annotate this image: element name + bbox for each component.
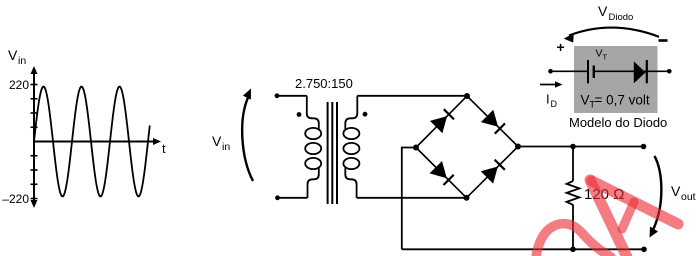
x-axis — [34, 138, 161, 145]
VDiodo curved arrow — [564, 28, 659, 43]
svg-text:V: V — [598, 3, 608, 19]
wire secondary top to bridge top node — [357, 95, 467, 97]
primary terminal bottom — [275, 195, 280, 200]
svg-text:220: 220 — [9, 78, 29, 92]
VT value label — [581, 93, 650, 110]
svg-text:V: V — [671, 183, 681, 199]
svg-text:+: + — [557, 39, 565, 55]
sine wave Vin — [34, 87, 150, 197]
VDiodo label — [598, 3, 633, 23]
ID label — [546, 92, 558, 110]
svg-text:out: out — [681, 191, 696, 203]
bridge edges — [416, 96, 518, 198]
wire secondary bottom to bridge bottom node — [357, 197, 467, 199]
Vin axis label (graph) — [8, 47, 26, 67]
diode D5 (model) — [634, 60, 647, 83]
model terminal right — [667, 69, 672, 74]
secondary phase dot — [363, 112, 368, 117]
svg-text:in: in — [18, 55, 26, 67]
Vout label — [671, 183, 696, 203]
diode D2 (top to right) — [481, 110, 505, 134]
svg-text:= 0,7 volt: = 0,7 volt — [595, 93, 650, 108]
svg-text:V: V — [212, 133, 222, 149]
wire primary bottom — [278, 197, 308, 199]
Vout curved arrow — [650, 156, 662, 238]
node Vout plus terminal — [641, 144, 647, 150]
node left junction — [413, 145, 419, 151]
bottom rail wire — [402, 248, 644, 250]
transformer core — [328, 102, 337, 204]
primary phase dot — [297, 112, 302, 117]
node top junction — [464, 93, 470, 99]
svg-text:T: T — [603, 53, 608, 62]
diode D4 (bottom to right) — [481, 160, 505, 184]
svg-text:2.750:150: 2.750:150 — [295, 76, 353, 91]
ID current arrow — [540, 81, 563, 88]
diode D3 (left to bottom) — [430, 161, 454, 185]
diode model gray box — [574, 46, 658, 113]
svg-text:D: D — [551, 99, 558, 109]
battery VT — [588, 60, 594, 83]
y-axis — [31, 66, 38, 208]
svg-text:V: V — [596, 48, 603, 60]
wire right node to Vout plus — [518, 146, 644, 148]
svg-text:V: V — [8, 47, 18, 63]
watermark — [536, 180, 678, 256]
diode D1 (left to top) — [430, 109, 454, 133]
primary winding L1 — [305, 96, 321, 198]
model wire right — [594, 70, 670, 72]
wire primary top — [277, 95, 307, 97]
svg-text:I: I — [546, 92, 550, 107]
node Vout minus terminal — [641, 247, 647, 253]
node resistor bottom junction — [570, 247, 576, 253]
wire DC minus: left node to bottom rail — [402, 148, 416, 250]
svg-text:t: t — [162, 141, 166, 156]
node bottom junction — [464, 195, 470, 201]
node resistor top junction — [570, 144, 576, 150]
primary terminal top — [275, 93, 280, 98]
model terminal left — [548, 69, 553, 74]
node right junction — [515, 144, 521, 150]
y-axis ticks — [31, 85, 38, 199]
Vin curved arrow — [242, 89, 253, 182]
secondary winding L2 — [343, 96, 359, 198]
VT label — [596, 48, 608, 62]
model wire left — [551, 70, 589, 72]
svg-text:Modelo do Diodo: Modelo do Diodo — [569, 115, 667, 130]
minus sign — [659, 39, 668, 42]
svg-text:in: in — [222, 141, 230, 153]
svg-text:V: V — [581, 93, 590, 108]
svg-text:–220: –220 — [2, 192, 29, 206]
Vin label (transformer) — [212, 133, 230, 153]
svg-text:Diodo: Diodo — [609, 12, 634, 23]
resistor R1 120 ohm — [567, 147, 580, 250]
